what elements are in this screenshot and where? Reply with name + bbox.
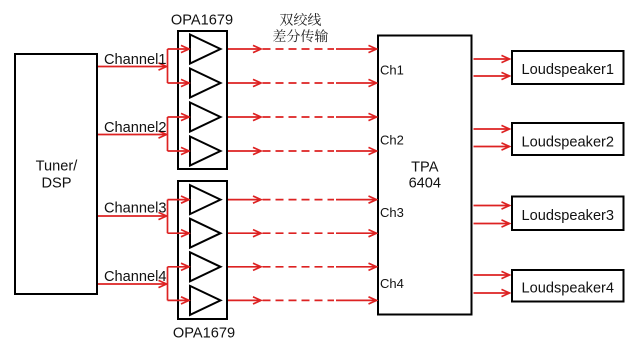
svg-text:OPA1679: OPA1679 <box>173 325 235 341</box>
svg-text:6404: 6404 <box>409 175 441 191</box>
svg-text:Channel1: Channel1 <box>104 52 166 68</box>
svg-text:Channel3: Channel3 <box>104 200 166 216</box>
svg-text:Channel2: Channel2 <box>104 120 166 136</box>
svg-text:Channel4: Channel4 <box>104 269 166 285</box>
svg-text:OPA1679: OPA1679 <box>171 13 233 29</box>
svg-text:Loudspeaker4: Loudspeaker4 <box>522 281 615 297</box>
svg-text:DSP: DSP <box>41 176 71 192</box>
svg-text:Ch4: Ch4 <box>380 276 404 291</box>
svg-text:Ch3: Ch3 <box>380 205 404 220</box>
svg-text:TPA: TPA <box>411 160 439 176</box>
svg-text:Ch2: Ch2 <box>380 133 404 148</box>
svg-text:Loudspeaker2: Loudspeaker2 <box>522 135 615 151</box>
svg-text:Tuner/: Tuner/ <box>36 159 79 175</box>
svg-text:Loudspeaker3: Loudspeaker3 <box>522 208 615 224</box>
svg-text:Ch1: Ch1 <box>380 62 404 77</box>
svg-text:Loudspeaker1: Loudspeaker1 <box>522 62 615 78</box>
